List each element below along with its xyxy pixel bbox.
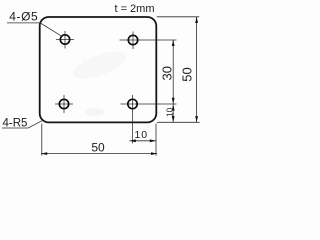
svg-text:4-R5: 4-R5 — [3, 118, 28, 130]
svg-text:t = 2mm: t = 2mm — [114, 3, 154, 15]
svg-text:10: 10 — [165, 107, 174, 117]
svg-text:50: 50 — [91, 141, 105, 155]
svg-text:10: 10 — [134, 129, 148, 141]
svg-text:50: 50 — [179, 67, 194, 81]
svg-text:4-Ø5: 4-Ø5 — [9, 10, 38, 24]
svg-text:30: 30 — [160, 66, 175, 80]
